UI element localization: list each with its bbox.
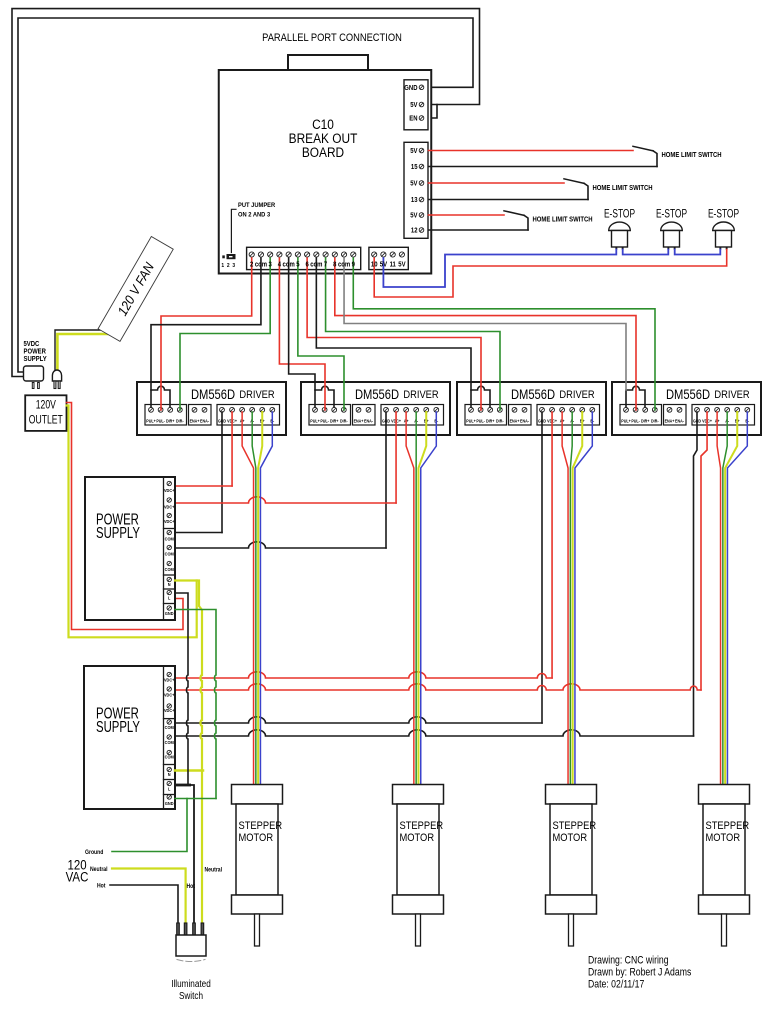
svg-text:5V: 5V [410,212,418,220]
svg-text:PUL+: PUL+ [621,418,631,423]
svg-text:PUL-: PUL- [156,418,165,423]
wire: driver3 A- green to motor 3 [570,412,572,785]
wire: 5V to home limit switch 3 [429,214,505,216]
wire: 120V fan cord (yellow-green) [57,334,115,370]
svg-text:5V: 5V [410,180,418,188]
svg-text:5V: 5V [380,261,388,269]
jumper note PUT JUMPER ON 2 AND 3 [221,202,275,270]
svg-text:L: L [168,595,171,600]
svg-text:Switch: Switch [179,989,203,1001]
wire: 120VAC neutral (yellow) to switch [112,869,186,924]
home limit switch 1 [633,146,722,166]
wire: PS1 VDC+ bus to driver1 [175,485,232,487]
svg-text:GND: GND [404,85,417,93]
wire: driver4 A- green to motor 4 [723,412,727,785]
wire: driver1 B- blue to motor 1 [260,412,272,785]
wire: 120V fan cord (black) [55,330,111,370]
svg-text:MOTOR: MOTOR [706,832,741,844]
wire: PS2 VDC+ bus to driver4 [175,684,701,690]
svg-text:MOTOR: MOTOR [553,832,588,844]
svg-text:DRIVER: DRIVER [559,389,594,401]
svg-text:EN: EN [409,115,418,123]
svg-text:ENA-: ENA- [520,418,530,423]
wire: PS2 VDC+ bus to driver3 [175,672,552,678]
svg-text:ENA+: ENA+ [190,418,200,423]
wire: PS2 GND (green) to 120VAC ground [112,799,187,852]
stepper motor 1 [232,785,283,947]
svg-text:Hot: Hot [187,883,195,890]
DM556D driver 1 [137,382,286,435]
wire: driver2 VDC+ down [395,412,397,503]
svg-text:N: N [168,582,171,587]
wire: terminal com (black) to driver 1 PUL+ [151,258,261,390]
wire: red terminal 10 to E-STOP3 [374,250,727,298]
svg-text:OUTLET: OUTLET [29,414,63,426]
wire: driver4 GND down [694,412,698,736]
svg-text:COM: COM [165,567,175,572]
label: 120 V FAN [98,237,173,342]
svg-text:SUPPLY: SUPPLY [96,717,140,735]
svg-text:2: 2 [250,261,254,269]
wire: blue 5V bus to E-STOP chain [383,250,616,288]
fan plug [52,370,61,389]
wire: home limit switch 1 return [429,166,658,168]
svg-text:SUPPLY: SUPPLY [24,356,48,364]
svg-text:10: 10 [371,261,378,269]
svg-text:12: 12 [411,227,418,235]
wire: PS1 COM bus to driver2 [175,542,386,548]
wire: PS1 L hot (black) down [175,593,188,785]
wire: PS1 VDC+ bus to driver2 [175,497,396,503]
svg-text:Drawn by: Robert J Adams: Drawn by: Robert J Adams [588,967,691,979]
svg-text:PUL-: PUL- [320,418,329,423]
svg-text:VDC+: VDC+ [164,504,175,509]
svg-text:VDC+: VDC+ [164,677,175,682]
svg-text:COM: COM [165,536,175,541]
svg-text:E-STOP: E-STOP [656,208,687,221]
svg-text:Drawing: CNC wiring: Drawing: CNC wiring [588,955,669,967]
wire: home limit switch 3 return [429,229,529,231]
DM556D driver 4 [612,382,761,435]
svg-text:com: com [255,261,267,269]
svg-text:DIR-: DIR- [176,418,184,423]
svg-text:ENA-: ENA- [200,418,210,423]
wire: driver3 A+ red to motor 3 [562,412,568,785]
wire: EN jumper to 5V [429,105,438,119]
title block text [588,955,691,991]
wire: breakout 5V to 5VDC supply (outer loop) [12,9,480,377]
DM556D driver 3 [457,382,606,435]
svg-text:GND: GND [165,801,174,806]
E-STOP button 1 [604,208,635,249]
svg-text:15: 15 [411,164,418,172]
svg-text:Ground: Ground [85,849,104,856]
E-STOP button 3 [708,208,739,249]
svg-text:BOARD: BOARD [302,144,344,160]
svg-text:120V: 120V [36,399,56,411]
svg-text:11: 11 [390,261,397,269]
wire: driver2 GND down [385,412,387,548]
svg-text:GND: GND [165,611,174,616]
wire: outlet neutral (yellow) to PS1 N [67,406,197,638]
svg-text:com: com [283,261,295,269]
wire: blue link E-STOP1 to E-STOP2 [623,250,669,255]
svg-text:Date: 02/11/17: Date: 02/11/17 [588,979,645,991]
wire: terminal (green) to driver 4 DIR- [353,258,655,410]
svg-text:DRIVER: DRIVER [714,389,749,401]
breakout board C10 [219,55,432,274]
svg-text:DRIVER: DRIVER [239,389,274,401]
stepper motor 4 [699,785,750,947]
svg-text:MOTOR: MOTOR [239,832,274,844]
wire: terminal 89 (red) to driver 4 PUL- [335,258,636,410]
jumper PUL+/DIR+ driver 1 [151,386,170,407]
svg-text:Neutral: Neutral [205,867,223,874]
wire: driver3 B- blue to motor 3 [575,412,592,785]
wire: driver1 GND down [221,412,223,533]
home limit switch 3 [504,211,593,230]
svg-text:E-STOP: E-STOP [604,208,635,221]
svg-text:9: 9 [352,261,356,269]
svg-text:VAC: VAC [66,870,89,885]
svg-text:DIR+: DIR+ [330,418,339,423]
wire: driver4 VDC+ down [701,412,707,690]
wire: driver4 B+ yellow to motor 4 [725,412,737,785]
wire: PS1 COM bus to driver1 [175,532,222,534]
wire: 5V to home limit switch 1 [429,150,634,152]
wire: PS2 GND stub (green) [175,798,216,800]
svg-text:7: 7 [324,261,328,269]
wire: PS1 GND (green) down [175,610,216,799]
5VDC power supply [24,341,48,389]
svg-text:VDC+: VDC+ [164,692,175,697]
DM556D driver 2 [301,382,450,435]
svg-text:N: N [168,772,171,777]
svg-text:VDC+: VDC+ [164,708,175,713]
svg-text:ON 2 AND 3: ON 2 AND 3 [238,211,271,219]
wire: driver2 A- green to motor 2 [415,412,417,785]
svg-text:L: L [168,786,171,791]
svg-text:HOME LIMIT SWITCH: HOME LIMIT SWITCH [593,185,653,193]
svg-text:6: 6 [305,261,309,269]
svg-text:ENA+: ENA+ [665,418,675,423]
svg-text:3: 3 [232,263,235,269]
wire: blue link E-STOP2 to E-STOP3 [675,250,721,255]
wire: PS2 COM bus to driver4 [175,730,694,736]
svg-text:STEPPER: STEPPER [553,820,597,832]
svg-text:ENA-: ENA- [364,418,374,423]
svg-text:PUL+: PUL+ [466,418,476,423]
svg-text:13: 13 [411,197,418,205]
svg-text:COM: COM [165,725,175,730]
wire: PS2 N stub (yellow) [175,769,203,772]
wire: driver2 A+ red to motor 2 [406,412,414,785]
svg-text:4: 4 [278,261,282,269]
wire: 120VAC hot (black) to switch [110,885,178,923]
svg-text:HOME LIMIT SWITCH: HOME LIMIT SWITCH [662,152,722,160]
svg-text:DM556D: DM556D [355,387,399,402]
wire: 5V to home limit switch 2 [429,182,565,184]
svg-text:DRIVER: DRIVER [403,389,438,401]
svg-text:ENA+: ENA+ [354,418,364,423]
svg-text:PUT JUMPER: PUT JUMPER [238,202,276,210]
wire: terminal (green) to driver 1 DIR- [180,258,270,410]
wire: driver1 A- green to motor 1 [252,412,256,785]
svg-text:POWER: POWER [24,348,47,356]
svg-text:5V: 5V [410,148,418,156]
jumper PUL+/DIR+ driver 2 [315,386,334,407]
wire: driver3 VDC+ down [551,412,553,678]
terminal block 5V/15/5V/13/5V/12 [404,142,428,238]
wire: PS2 COM bus to driver3 [175,717,542,723]
svg-text:PARALLEL PORT CONNECTION: PARALLEL PORT CONNECTION [262,32,402,44]
wire: driver1 A+ red to motor 1 [242,412,253,785]
svg-text:Neutral: Neutral [90,866,108,873]
svg-text:ENA+: ENA+ [510,418,520,423]
svg-text:DM556D: DM556D [511,387,555,402]
svg-text:DIR+: DIR+ [166,418,175,423]
svg-text:DIR-: DIR- [340,418,348,423]
wire: driver4 A+ red to motor 4 [717,412,720,785]
svg-text:STEPPER: STEPPER [400,820,444,832]
terminal block 2..9 [247,247,361,269]
wire: driver2 B- blue to motor 2 [421,412,437,785]
jumper PUL+/DIR+ driver 4 [626,386,645,407]
wire: PS2 L hot (black) to switch [175,785,194,923]
svg-text:PUL+: PUL+ [310,418,320,423]
terminal block GND/5V/EN [404,80,428,130]
svg-text:VDC+: VDC+ [164,519,175,524]
svg-text:PUL+: PUL+ [146,418,156,423]
wire: driver3 B+ yellow to motor 3 [573,412,583,785]
svg-text:ENA-: ENA- [675,418,685,423]
terminal block 10/5V/11/5V [369,247,408,269]
svg-text:5V: 5V [410,102,418,110]
jumper PUL+/DIR+ driver 3 [471,386,490,407]
svg-text:SUPPLY: SUPPLY [96,523,140,541]
wire: outlet hot (red) to PS1 L [67,403,184,630]
power supply PS1 [85,477,175,620]
svg-text:COM: COM [165,740,175,745]
stepper motor 3 [546,785,597,947]
svg-text:com: com [338,261,350,269]
wire: PS1 N neutral (yellow) down to switch [175,581,202,924]
wire: terminal 20 (red) to driver 1 PUL- [161,258,252,410]
svg-text:DIR-: DIR- [651,418,659,423]
svg-text:DIR+: DIR+ [641,418,650,423]
wire: driver3 GND down [541,412,543,723]
wire: terminal 66 (red) to driver 3 PUL- [307,258,481,410]
power supply PS2 [84,666,175,809]
labels: breakout bottom terminal numbers [250,261,406,269]
120V outlet [25,395,66,431]
svg-text:COM: COM [165,551,175,556]
svg-text:com: com [310,261,322,269]
wire: driver2 B+ yellow to motor 2 [418,412,426,785]
illuminated switch [171,923,211,1001]
svg-text:COM: COM [165,754,175,759]
svg-text:E-STOP: E-STOP [708,208,739,221]
stepper motor 2 [393,785,444,947]
wire: driver1 B+ yellow to motor 1 [258,412,262,785]
wire: home limit switch 2 return [429,199,589,201]
E-STOP button 2 [656,208,687,249]
svg-text:DIR+: DIR+ [486,418,495,423]
svg-text:DIR-: DIR- [496,418,504,423]
home limit switch 2 [564,179,653,200]
svg-text:HOME LIMIT SWITCH: HOME LIMIT SWITCH [533,216,593,224]
svg-text:PUL-: PUL- [476,418,485,423]
svg-text:Hot: Hot [97,883,105,890]
svg-text:STEPPER: STEPPER [239,820,283,832]
svg-text:Illuminated: Illuminated [171,977,211,989]
svg-text:5: 5 [296,261,300,269]
wire: terminal 43 (red) to driver 2 PUL- [279,258,325,410]
wire: driver1 VDC+ down [231,412,233,486]
svg-text:5V: 5V [398,261,406,269]
wire: terminal com (black) to driver 2 PUL+ [289,258,315,390]
svg-text:DM556D: DM556D [191,387,235,402]
svg-text:DM556D: DM556D [666,387,710,402]
svg-text:5VDC: 5VDC [24,341,40,349]
svg-text:8: 8 [333,261,337,269]
svg-text:STEPPER: STEPPER [706,820,750,832]
svg-text:VDC+: VDC+ [164,488,175,493]
wire: driver4 B- blue to motor 4 [727,412,747,785]
svg-text:1: 1 [221,263,224,269]
svg-text:PUL-: PUL- [631,418,640,423]
svg-text:2: 2 [227,263,230,269]
svg-text:MOTOR: MOTOR [400,832,435,844]
wire: terminal (green) to driver 3 DIR- [326,258,500,410]
wire: breakout GND to 5VDC supply (outer-inner loop) [18,18,473,372]
wire: terminal com (black) to driver 4 PUL+ [344,258,626,390]
wire: terminal com (black) to driver 3 PUL+ [316,258,471,390]
svg-text:3: 3 [269,261,273,269]
wire: terminal (green) to driver 2 DIR- [298,258,344,410]
